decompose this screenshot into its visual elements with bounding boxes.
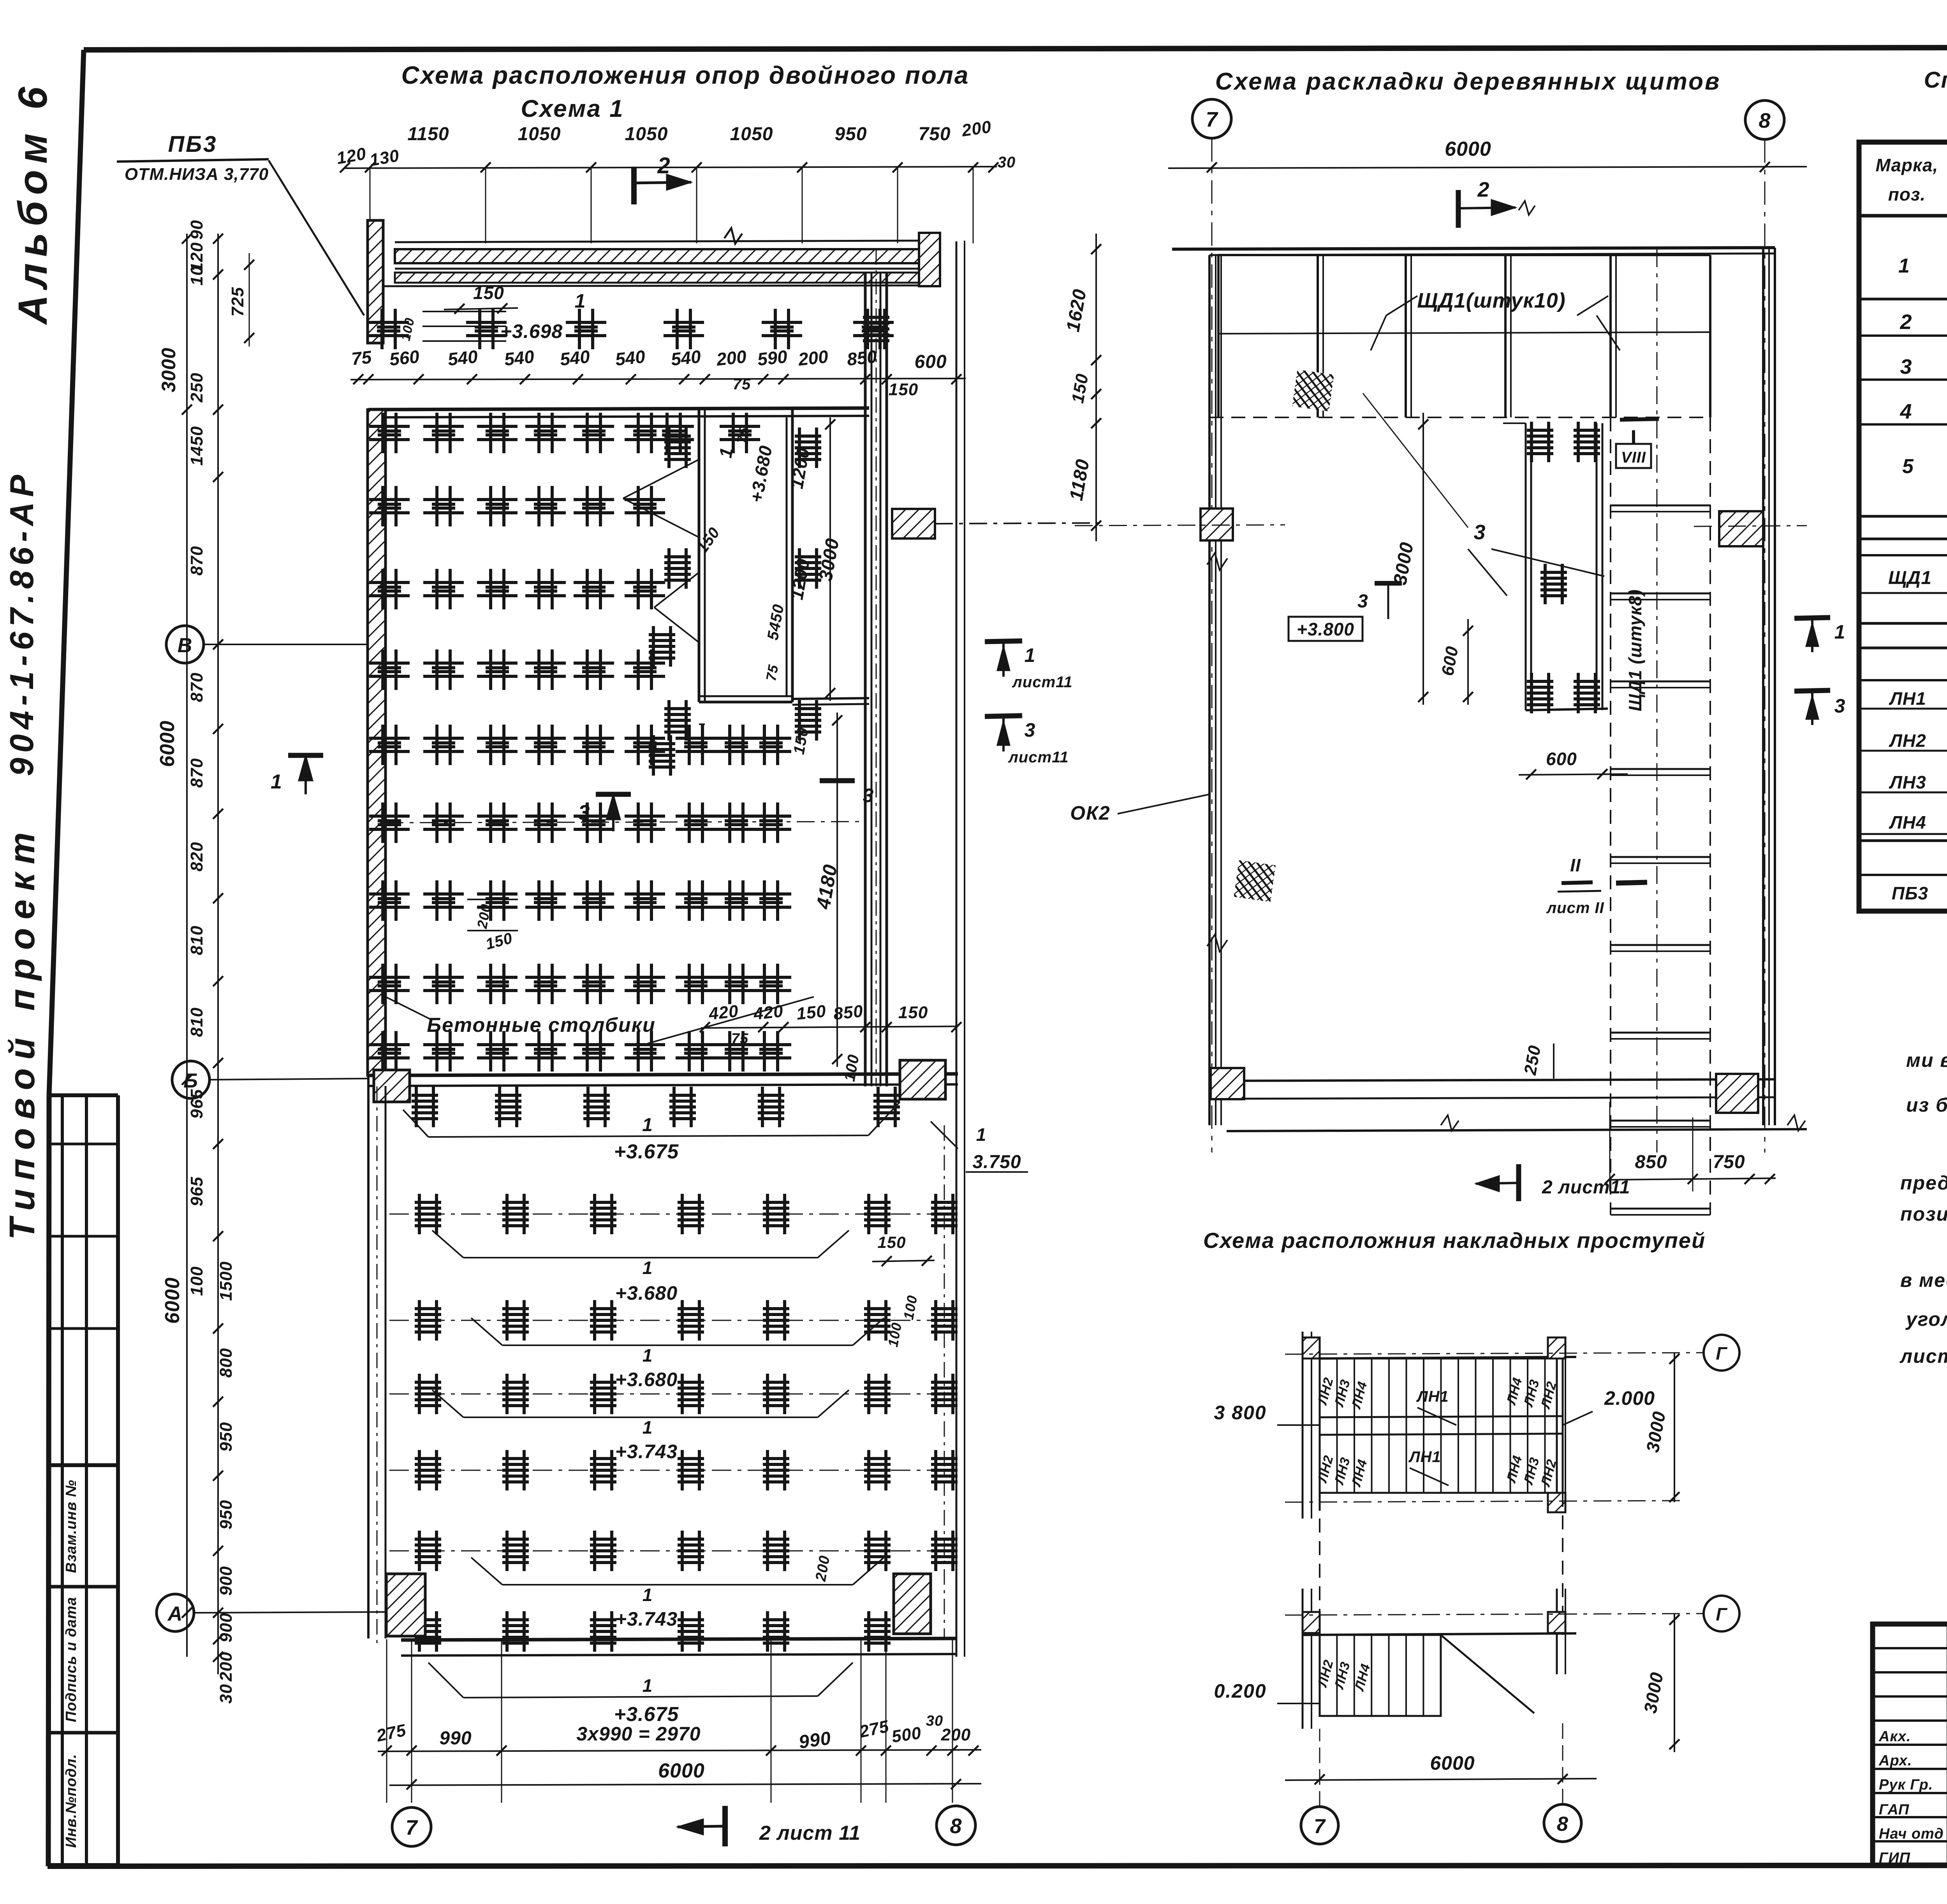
level box +3.800 — [1289, 617, 1363, 641]
axis bubble 7 left plan — [392, 1807, 431, 1846]
svg-text:+3.680: +3.680 — [615, 1282, 678, 1304]
top dimension chain line with ticks — [345, 167, 997, 168]
svg-text:850: 850 — [833, 1001, 864, 1024]
svg-text:В: В — [178, 634, 193, 657]
svg-text:200: 200 — [797, 346, 829, 370]
svg-text:ПБ3: ПБ3 — [168, 132, 217, 157]
bottom chain extension lines — [386, 1639, 387, 1803]
section marks T1 T3 right of middle plan — [1794, 618, 1830, 618]
svg-text:150: 150 — [473, 283, 504, 303]
svg-text:ЩД1 (штук8): ЩД1 (штук8) — [1625, 589, 1645, 711]
svg-text:900: 900 — [217, 1566, 236, 1596]
svg-text:ЩД1(штук10): ЩД1(штук10) — [1417, 289, 1566, 312]
svg-text:лист11: лист11 — [1012, 674, 1073, 691]
lower diagram axis G and bubble — [1285, 1614, 1704, 1615]
svg-text:Схема расположния накладных пр: Схема расположния накладных проступей — [1203, 1228, 1706, 1253]
dim 3000 upper diagram — [1674, 1353, 1675, 1502]
lower diagram top line — [1303, 1633, 1576, 1635]
svg-text:870: 870 — [187, 672, 206, 702]
svg-text:965: 965 — [187, 1177, 206, 1206]
svg-text:540: 540 — [503, 346, 535, 370]
svg-text:Схема расположения опор двойно: Схема расположения опор двойного пола — [401, 61, 970, 89]
svg-text:3: 3 — [1025, 719, 1036, 741]
dashed connectors between diagrams — [1319, 1519, 1320, 1635]
svg-text:Взам.инв №: Взам.инв № — [63, 1480, 79, 1573]
svg-text:6000: 6000 — [156, 720, 179, 767]
svg-text:лист11: лист11 — [1008, 749, 1069, 766]
svg-text:820: 820 — [187, 842, 206, 871]
section mark 2 list 11 bottom — [722, 1806, 728, 1846]
svg-text:6000: 6000 — [161, 1277, 184, 1324]
section mark 1 in left plan lower — [288, 753, 323, 758]
svg-text:ОТМ.НИЗА 3,770: ОТМ.НИЗА 3,770 — [125, 165, 269, 184]
room top chain line with ticks — [350, 378, 966, 380]
left plan left wall hatched — [368, 410, 386, 1075]
svg-text:1: 1 — [643, 1258, 653, 1278]
svg-text:VIII: VIII — [1621, 449, 1646, 466]
hatched pier on canal at axis V — [892, 509, 935, 538]
svg-text:1150: 1150 — [407, 124, 449, 144]
svg-text:725: 725 — [228, 287, 247, 317]
svg-text:950: 950 — [217, 1422, 236, 1452]
svg-text:из бетона марки 150.: из бетона марки 150. — [1906, 1094, 1947, 1116]
svg-text:850: 850 — [846, 346, 878, 370]
svg-text:1: 1 — [643, 1345, 653, 1366]
notch step to canal wall — [792, 698, 869, 699]
svg-text:10: 10 — [187, 266, 206, 286]
svg-text:3.750: 3.750 — [972, 1152, 1021, 1172]
svg-text:870: 870 — [187, 758, 206, 788]
lower diagram right wall stub — [1556, 1589, 1558, 1674]
svg-text:1450: 1450 — [187, 426, 206, 466]
svg-text:810: 810 — [187, 926, 206, 955]
signature rows with names — [1873, 1744, 1947, 1746]
svg-text:7: 7 — [405, 1816, 418, 1839]
svg-text:3: 3 — [1900, 355, 1912, 378]
axis V bubble and leader — [166, 626, 204, 663]
axis B bubble — [172, 1061, 209, 1098]
svg-text:+3.675: +3.675 — [614, 1703, 679, 1726]
dim 3000 line at notch right — [829, 417, 831, 701]
svg-text:75: 75 — [734, 426, 752, 445]
spec empty thin row — [1859, 538, 1947, 540]
middle 600 panel stack — [1525, 423, 1527, 710]
bottom chain line 1 with ticks — [378, 1750, 981, 1751]
svg-text:8: 8 — [1557, 1813, 1569, 1835]
upper diagram right wall — [1556, 1347, 1558, 1511]
svg-text:540: 540 — [670, 346, 702, 370]
section mark 3 middle — [1375, 581, 1402, 586]
svg-text:3000: 3000 — [158, 347, 180, 392]
svg-text:поз.: поз. — [1888, 184, 1926, 204]
svg-text:1: 1 — [1898, 255, 1910, 277]
notch channel walls (3000 recess) — [698, 410, 701, 702]
svg-text:6000: 6000 — [1445, 138, 1491, 160]
dim 3000 vertical middle — [1422, 413, 1424, 705]
svg-text:7: 7 — [1314, 1815, 1326, 1838]
svg-text:Альбом 6: Альбом 6 — [10, 81, 56, 326]
axis A bubble — [157, 1594, 194, 1631]
lower diagram diagonal — [1441, 1635, 1534, 1713]
axis bubble 8 lower diagram — [1544, 1804, 1581, 1842]
svg-text:1500: 1500 — [217, 1261, 236, 1301]
middle plan bottom wall — [1209, 1079, 1775, 1081]
upper diagram corner hatch blocks — [1303, 1337, 1320, 1358]
spec table bottom border — [1859, 909, 1947, 913]
svg-text:Бетонные столбики: Бетонные столбики — [427, 1014, 656, 1036]
upper-left small chain 725 1450 — [249, 253, 250, 347]
svg-text:+3.800: +3.800 — [1297, 619, 1354, 639]
svg-text:уголком поз. 5 (смотрите: уголком поз. 5 (смотрите узлы II , III ,… — [1905, 1308, 1947, 1330]
svg-text:6000: 6000 — [1430, 1752, 1475, 1774]
svg-text:870: 870 — [187, 546, 206, 575]
hatched corner blocks at B wall — [374, 1070, 410, 1102]
svg-text:ГАП: ГАП — [1879, 1802, 1909, 1818]
lower rooms ladder support rows with axis dash lines — [389, 1214, 954, 1215]
svg-text:990: 990 — [439, 1728, 472, 1749]
level label 1 +3.675 below B — [428, 1135, 868, 1137]
panel field mid horizontal line — [1218, 332, 1710, 334]
support row below B wall — [412, 1087, 438, 1127]
top channel band - slab with hatch — [395, 241, 919, 242]
bottom wall axis A double line — [401, 1638, 956, 1640]
svg-text:А: А — [167, 1603, 183, 1625]
svg-text:2: 2 — [657, 153, 670, 178]
dim 3000 lower diagram — [1674, 1614, 1675, 1752]
svg-text:1: 1 — [271, 771, 282, 793]
pier axis dash line — [1075, 525, 1285, 526]
corridor support row at +3.698 — [368, 309, 409, 349]
svg-text:965: 965 — [187, 1089, 206, 1119]
svg-text:1: 1 — [643, 1585, 653, 1605]
section mark 2 at top — [631, 167, 637, 204]
lower tread diagram — [1302, 1589, 1304, 1729]
panel field bottom dashed line — [1209, 417, 1710, 418]
break marks bottom wall — [1441, 1115, 1459, 1131]
svg-text:1: 1 — [1834, 621, 1846, 643]
node II mark list 11 — [1561, 882, 1593, 883]
dim 4180 rotated at right of room — [836, 713, 838, 1067]
section mark 3 upper room — [820, 778, 855, 783]
svg-text:2: 2 — [1899, 310, 1912, 334]
upper tread strips vertical lines — [1336, 1358, 1338, 1493]
axis B dash line through room — [386, 822, 865, 823]
svg-text:ЛН1: ЛН1 — [1416, 1388, 1449, 1405]
middle plan left dimension chain — [1095, 234, 1097, 541]
section mark 2 list11 middle bottom — [1516, 1164, 1521, 1201]
svg-text:30: 30 — [998, 154, 1016, 171]
upper tread diagram walls — [1302, 1332, 1304, 1519]
wall at axis B double line — [368, 1074, 958, 1075]
right wall double line middle plan — [1762, 248, 1764, 1125]
svg-text:1050: 1050 — [625, 124, 668, 144]
svg-text:Схема раскладки деревянных щит: Схема раскладки деревянных щитов — [1215, 68, 1721, 95]
level labels between lower rows — [463, 1257, 818, 1258]
left wall lower rooms — [367, 1075, 370, 1638]
svg-text:75: 75 — [731, 1031, 748, 1047]
svg-text:Нач отд: Нач отд — [1879, 1826, 1944, 1842]
left stamp table — [48, 1095, 51, 1865]
axis bubble 7 lower diagram — [1301, 1807, 1338, 1844]
svg-text:150: 150 — [877, 1233, 906, 1251]
hatched pier right wall middle plan — [1719, 511, 1763, 546]
svg-text:810: 810 — [187, 1007, 206, 1037]
level label 1 +3.675 below bottom wall — [463, 1696, 818, 1698]
svg-text:540: 540 — [447, 346, 479, 370]
svg-text:+3.680: +3.680 — [615, 1369, 678, 1390]
svg-text:2 лист11: 2 лист11 — [1542, 1177, 1630, 1198]
inner column ladder rungs — [1611, 505, 1710, 507]
crosshatch patch upper — [1292, 370, 1334, 411]
svg-text:Г: Г — [1716, 1343, 1727, 1364]
inner panel column dashed verticals — [1610, 417, 1611, 1215]
svg-text:ЛН1: ЛН1 — [1408, 1448, 1441, 1466]
svg-text:+3.698: +3.698 — [500, 320, 563, 342]
svg-text:ОК2: ОК2 — [1070, 802, 1110, 824]
svg-text:30: 30 — [217, 1684, 236, 1704]
svg-text:+3.675: +3.675 — [614, 1140, 679, 1163]
hatched pier left wall middle plan — [1201, 509, 1233, 540]
left vertical chain outer 3000 6000 6000 — [186, 234, 188, 1657]
svg-text:ми в плане 200х150 ) и ст: ми в плане 200х150 ) и стенки канала вып… — [1906, 1049, 1947, 1071]
svg-text:1: 1 — [643, 1675, 653, 1696]
svg-text:Типовой проект: Типовой проект — [2, 824, 42, 1240]
right canal axis dash-dot — [876, 249, 877, 1086]
svg-text:в местах примыкания к кан: в местах примыкания к каналу обрамить — [1900, 1269, 1947, 1291]
svg-text:3 800: 3 800 — [1214, 1402, 1266, 1424]
svg-text:ПБ3: ПБ3 — [1892, 883, 1928, 903]
section mark 3 list11 between plans — [985, 716, 1022, 716]
svg-text:800: 800 — [217, 1348, 236, 1378]
svg-text:1050: 1050 — [730, 124, 773, 144]
svg-text:предусмотреть установку закл: предусмотреть установку закладных элемен… — [1900, 1172, 1947, 1194]
svg-text:5: 5 — [1902, 455, 1914, 478]
spec table outer border — [1859, 142, 1947, 911]
svg-text:Рук Гр.: Рук Гр. — [1879, 1777, 1933, 1793]
support grid room 1 upper rows — [369, 413, 410, 453]
svg-text:+3.743: +3.743 — [615, 1441, 678, 1462]
svg-text:600: 600 — [914, 352, 947, 372]
title block outer border — [1873, 1624, 1947, 1865]
svg-text:Схема 1: Схема 1 — [521, 95, 624, 122]
left plan left wall lower segment to B wall — [368, 1075, 386, 1077]
section mark 3 in room — [596, 792, 631, 797]
svg-text:4: 4 — [1899, 400, 1912, 423]
svg-text:ЛН4: ЛН4 — [1889, 812, 1926, 832]
svg-text:2.000: 2.000 — [1604, 1387, 1655, 1409]
spec thin rows — [1859, 622, 1947, 625]
axis bubble 7 middle plan — [1192, 99, 1231, 138]
svg-text:8: 8 — [950, 1814, 962, 1838]
upper tread mid split lines — [1320, 1416, 1563, 1417]
panel stack ladder symbols — [1527, 422, 1553, 462]
svg-text:950: 950 — [834, 124, 867, 144]
svg-text:540: 540 — [559, 346, 591, 370]
svg-text:ЛН3: ЛН3 — [1889, 772, 1926, 792]
svg-text:200: 200 — [941, 1725, 971, 1744]
bottom wall hatched piers — [1211, 1068, 1244, 1099]
svg-text:II: II — [1570, 855, 1581, 875]
dim 600 vertical — [1467, 619, 1469, 705]
svg-text:Спецификация к схемам располож: Спецификация к схемам расположения опор … — [1924, 67, 1947, 93]
right boundary lower rooms — [956, 1086, 958, 1657]
svg-text:ЩД1: ЩД1 — [1888, 568, 1932, 588]
middle plan top wall double line — [1172, 248, 1775, 249]
axis 8 vertical dash line — [1764, 139, 1766, 1153]
support row on bottom wall — [415, 1611, 441, 1652]
svg-text:600: 600 — [1546, 749, 1577, 769]
left plan room top wall double line — [368, 408, 869, 410]
svg-text:листе 11 ): листе 11 ) — [1899, 1345, 1947, 1367]
hatched piers at bottom wall — [386, 1574, 425, 1636]
lower tread strip box — [1320, 1635, 1441, 1716]
axis bubble 8 middle plan — [1745, 100, 1784, 139]
svg-text:ГИП: ГИП — [1879, 1850, 1910, 1866]
axis bubble 8 left plan — [937, 1806, 975, 1845]
svg-text:0.200: 0.200 — [1214, 1680, 1266, 1702]
svg-text:100: 100 — [187, 1266, 206, 1296]
svg-text:Подпись и дата: Подпись и дата — [63, 1597, 79, 1722]
svg-text:ЛН2: ЛН2 — [1889, 730, 1926, 751]
inner column axis dash-dot — [1657, 249, 1658, 1153]
svg-text:ЛН1: ЛН1 — [1889, 688, 1926, 709]
svg-text:3: 3 — [1357, 591, 1368, 612]
svg-text:Г: Г — [1716, 1604, 1727, 1624]
svg-text:+3.743: +3.743 — [615, 1608, 678, 1630]
svg-text:1: 1 — [643, 1417, 653, 1438]
upper tread diagram top boundary — [1320, 1357, 1576, 1358]
middle plan wooden panel field ShchD1 — [1217, 255, 1220, 417]
svg-text:3х990 = 2970: 3х990 = 2970 — [576, 1723, 701, 1745]
signature table rows upper empty — [1873, 1647, 1947, 1649]
OK2 break marks — [1207, 553, 1227, 570]
svg-text:200: 200 — [715, 346, 747, 370]
break mark on band — [724, 228, 742, 244]
lower diagram corner hatch blocks — [1303, 1612, 1320, 1633]
sheet border frame — [84, 47, 1947, 50]
axis 7 vertical dash line — [1211, 138, 1213, 1153]
right canal vertical walls — [864, 273, 867, 1086]
svg-text:3: 3 — [1834, 695, 1846, 717]
svg-text:7: 7 — [1206, 108, 1218, 131]
crosshatch patch lower — [1234, 860, 1275, 902]
svg-text:150: 150 — [889, 380, 918, 399]
svg-text:Марка,: Марка, — [1876, 155, 1938, 175]
left wall dashed axis — [377, 1086, 378, 1647]
svg-text:904-1-67.86-АР: 904-1-67.86-АР — [4, 470, 40, 776]
top channel band right pier hatched — [919, 233, 940, 286]
svg-text:150: 150 — [796, 1001, 827, 1024]
svg-text:1050: 1050 — [518, 124, 561, 144]
svg-text:3: 3 — [578, 801, 590, 824]
svg-text:250: 250 — [187, 373, 206, 403]
svg-text:540: 540 — [614, 346, 646, 370]
svg-text:590: 590 — [756, 346, 788, 370]
upper tread diagram tread strip box — [1320, 1358, 1563, 1493]
svg-text:лист II: лист II — [1546, 899, 1604, 917]
svg-text:2 лист 11: 2 лист 11 — [759, 1822, 861, 1844]
PB3 leader line — [269, 160, 364, 315]
svg-text:750: 750 — [918, 124, 951, 144]
left vertical dimension chain inner with ticks — [217, 234, 219, 1674]
svg-text:750: 750 — [1713, 1152, 1745, 1172]
svg-text:75: 75 — [350, 347, 373, 369]
spec table header row line — [1859, 214, 1947, 218]
svg-text:позиция 1.: позиция 1. — [1900, 1203, 1947, 1225]
notch leader triangles — [623, 459, 699, 498]
svg-text:75: 75 — [763, 663, 782, 683]
VIII node box — [1616, 444, 1651, 468]
svg-text:Арх.: Арх. — [1878, 1753, 1912, 1769]
svg-text:200: 200 — [217, 1652, 236, 1682]
section mark 2 middle top — [1456, 190, 1461, 228]
svg-text:2: 2 — [1477, 178, 1489, 201]
svg-text:1: 1 — [575, 290, 586, 312]
svg-text:420: 420 — [708, 1001, 739, 1024]
svg-text:8: 8 — [1759, 109, 1771, 132]
svg-text:30: 30 — [926, 1713, 943, 1729]
plan outer right boundary lines — [956, 241, 958, 1086]
canal small support marks — [863, 309, 889, 349]
svg-text:1: 1 — [642, 1115, 653, 1135]
svg-text:150: 150 — [898, 1003, 928, 1022]
section mark 1 list11 between plans — [985, 641, 1022, 642]
svg-text:1: 1 — [976, 1124, 987, 1145]
svg-text:900: 900 — [217, 1613, 236, 1642]
svg-text:1: 1 — [1025, 644, 1036, 666]
svg-text:3: 3 — [1473, 521, 1486, 544]
svg-text:Акх.: Акх. — [1878, 1728, 1911, 1745]
svg-text:420: 420 — [752, 1001, 784, 1024]
svg-text:560: 560 — [388, 346, 420, 370]
signature table verticals — [1947, 1624, 1947, 1865]
svg-text:3: 3 — [863, 785, 874, 806]
svg-text:Инв.№подл.: Инв.№подл. — [63, 1754, 79, 1848]
top channel band left pier hatched — [368, 220, 383, 343]
upper diagram axis G dash line and bubble — [1285, 1353, 1704, 1354]
upper diagram axis bottom dash — [1285, 1501, 1686, 1502]
svg-text:6000: 6000 — [658, 1760, 705, 1782]
svg-text:850: 850 — [1635, 1152, 1667, 1172]
left wall OK2 window triple line — [1208, 255, 1211, 1125]
svg-text:950: 950 — [217, 1500, 236, 1529]
